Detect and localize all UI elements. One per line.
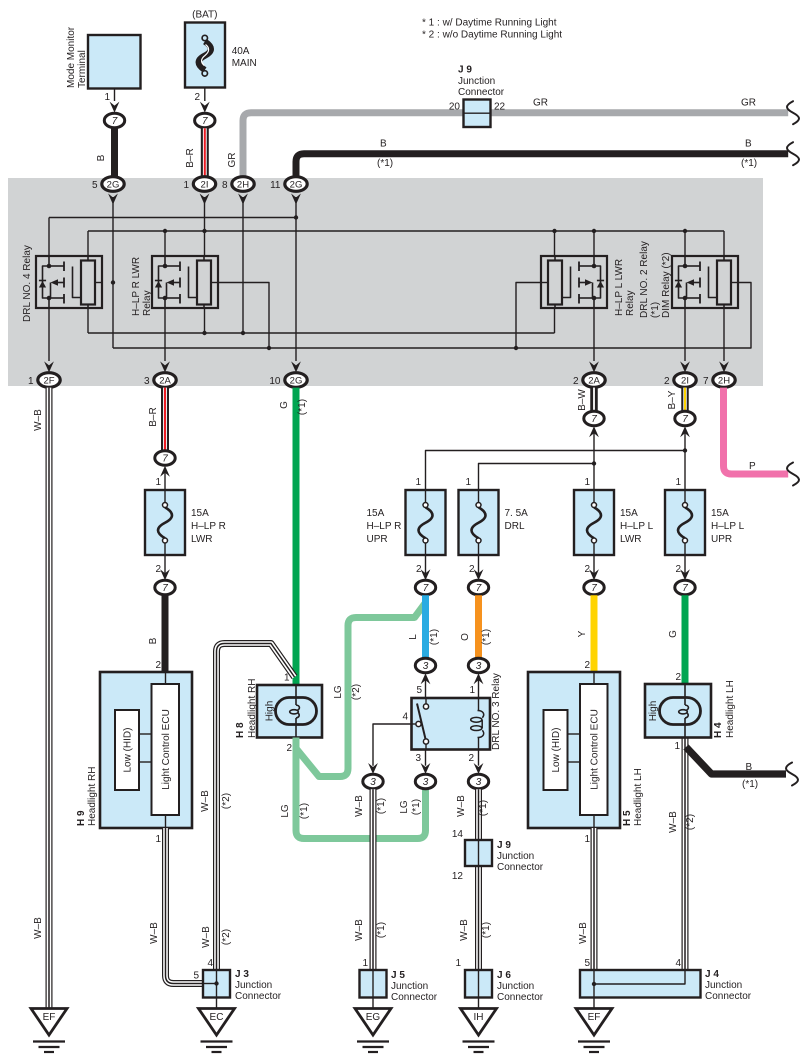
pin 2 of 40A MAIN <box>194 88 204 103</box>
svg-text:2: 2 <box>194 92 200 103</box>
svg-text:G: G <box>279 401 290 409</box>
connector oval 7 (40A MAIN) <box>195 113 215 127</box>
svg-text:5: 5 <box>584 958 590 969</box>
connector oval 3 (pin 4 wire) <box>363 774 383 788</box>
pin 1 labels fuses 1-2 <box>415 477 471 488</box>
svg-text:4: 4 <box>675 958 681 969</box>
wire W-B (*2) from H8 pin1 to J3 pin4 <box>200 644 295 971</box>
legend note *1 *2 <box>422 18 562 41</box>
svg-text:Headlight RH: Headlight RH <box>87 767 98 826</box>
svg-text:4: 4 <box>402 712 408 723</box>
svg-text:7: 7 <box>423 583 429 594</box>
svg-text:B–W: B–W <box>577 389 588 411</box>
break symbol P wire <box>787 461 801 487</box>
wire net L3 (y=333) contact bus <box>88 308 555 333</box>
pin 2 and connector 7 below fuse at x=425.5 <box>415 555 435 595</box>
svg-text:B: B <box>746 762 753 773</box>
svg-text:EC: EC <box>210 1012 224 1023</box>
coil inside DRL NO.3 relay <box>471 698 484 750</box>
svg-text:1: 1 <box>584 477 590 488</box>
pin 2 and connector 7 below fuse at x=685 <box>675 555 695 595</box>
svg-text:W–B: W–B <box>354 919 365 941</box>
wire B-R from 2A to connector 7 <box>148 388 165 451</box>
svg-text:H–LP L: H–LP L <box>711 521 745 532</box>
junction dots on net L3 <box>202 331 245 335</box>
break symbol GR wire <box>787 100 801 126</box>
svg-text:IH: IH <box>474 1012 484 1023</box>
svg-text:10: 10 <box>269 376 281 387</box>
svg-text:Connector: Connector <box>458 87 505 98</box>
svg-text:H–LP R LWR: H–LP R LWR <box>131 257 142 316</box>
svg-text:(*1): (*1) <box>741 158 757 169</box>
wire relay4 contact to 2H <box>723 308 725 361</box>
wire B-Y from 2I to connector 7 <box>667 388 685 411</box>
connector oval 7 (B-Y) <box>675 411 695 425</box>
svg-text:2: 2 <box>286 743 292 754</box>
svg-text:DIM Relay (*2): DIM Relay (*2) <box>661 252 672 318</box>
svg-text:P: P <box>749 461 756 472</box>
svg-text:15A: 15A <box>620 508 638 519</box>
svg-text:1: 1 <box>104 92 110 103</box>
component Mode Monitor Terminal box <box>88 35 141 89</box>
break symbol B wire <box>787 141 801 167</box>
wire Y yellow <box>577 595 594 672</box>
wire arrow up into oval 3 (L) <box>416 673 430 698</box>
svg-text:12: 12 <box>452 871 464 882</box>
svg-text:Junction: Junction <box>705 980 742 991</box>
svg-text:Junction: Junction <box>497 851 534 862</box>
junction dots on net L2 <box>163 229 687 233</box>
wire W-B from H9 pin1 to J3 pin5 <box>149 828 204 984</box>
svg-text:High: High <box>648 701 659 722</box>
svg-text:Connector: Connector <box>497 992 544 1003</box>
svg-text:1: 1 <box>155 834 161 845</box>
ground IH <box>461 1009 497 1053</box>
pin 1 of H5 <box>584 834 590 845</box>
svg-text:H–LP R: H–LP R <box>367 521 402 532</box>
wire B-W from 2A to connector 7 <box>577 388 594 411</box>
gray relay block background <box>8 178 763 386</box>
wire W-B from 2F to ground EF <box>33 388 49 1009</box>
svg-text:B: B <box>745 139 752 150</box>
svg-text:J 5: J 5 <box>391 970 405 981</box>
svg-text:Connector: Connector <box>235 991 282 1002</box>
svg-text:1: 1 <box>284 673 290 684</box>
wire W-B from H5 pin1 to J4 pin5 <box>578 828 594 970</box>
svg-text:B: B <box>380 139 387 150</box>
svg-text:G: G <box>668 630 679 638</box>
pin 2 of DRL NO.3 relay <box>468 750 478 766</box>
svg-text:(*1): (*1) <box>742 779 758 790</box>
svg-text:2: 2 <box>468 753 474 764</box>
connector oval 3 (pin 3 wire) <box>415 774 435 788</box>
fuse 15A H-LP L UPR <box>665 490 745 555</box>
pin 2 and connector 7 below fuse at x=478.5 <box>468 555 488 595</box>
svg-text:(*1): (*1) <box>297 399 308 415</box>
svg-text:1: 1 <box>28 376 34 387</box>
svg-text:14: 14 <box>452 829 464 840</box>
wire from 2I down to relay2 contact <box>204 197 206 256</box>
wire arrow into oval 3 (pin4) <box>368 763 378 774</box>
svg-text:(*1): (*1) <box>411 799 422 815</box>
svg-text:1: 1 <box>674 741 680 752</box>
svg-text:Light Control ECU: Light Control ECU <box>590 709 601 790</box>
wire net L2 (y=231) relay tops <box>88 231 724 256</box>
svg-text:J 3: J 3 <box>235 969 249 980</box>
connector oval 3 (pin 2 wire) <box>468 774 488 788</box>
svg-text:5: 5 <box>92 180 98 191</box>
svg-text:W–B: W–B <box>459 919 470 941</box>
svg-text:(*1): (*1) <box>299 803 310 819</box>
svg-text:UPR: UPR <box>711 534 732 545</box>
svg-text:2G: 2G <box>290 180 303 191</box>
svg-text:22: 22 <box>494 102 506 113</box>
svg-text:J 6: J 6 <box>497 970 511 981</box>
svg-text:15A: 15A <box>711 508 729 519</box>
svg-text:(*1): (*1) <box>481 629 492 645</box>
connector 5 2G (top boundary) <box>92 177 124 205</box>
fusible link 40A MAIN box <box>185 23 225 88</box>
wire arrow up into connector 7 <box>160 466 170 477</box>
switch inside DRL NO.3 relay <box>412 698 429 750</box>
svg-text:1: 1 <box>675 477 681 488</box>
wire bus2 (y=463.5) <box>479 464 595 491</box>
junction dot relay1 stub/2G-5 <box>111 280 115 284</box>
wire stub relay3 left to net L4 <box>516 283 541 349</box>
ECU H9 Headlight RH <box>76 672 192 828</box>
wire O (*1) orange <box>460 595 492 658</box>
wire B (*1) from 2G-11 to right edge <box>296 139 790 178</box>
label (BAT) <box>192 10 217 21</box>
svg-text:5: 5 <box>416 685 422 696</box>
wire J5 to ground EG <box>372 998 374 1009</box>
junction connector J4 (pins 5/4) <box>580 969 752 1002</box>
svg-text:7: 7 <box>202 116 208 127</box>
wire B-R from 40A MAIN to 2I <box>185 128 205 177</box>
svg-text:Connector: Connector <box>497 862 544 873</box>
svg-text:1: 1 <box>455 958 461 969</box>
svg-text:LWR: LWR <box>620 534 641 545</box>
svg-text:2G: 2G <box>290 376 303 387</box>
svg-text:7: 7 <box>162 583 168 594</box>
svg-text:Low (HID): Low (HID) <box>551 727 562 772</box>
svg-text:2: 2 <box>675 564 681 575</box>
svg-text:LG: LG <box>280 804 291 818</box>
ECU H5 Headlight LH <box>528 672 644 828</box>
svg-text:W–B: W–B <box>33 917 44 939</box>
svg-text:7: 7 <box>112 116 118 127</box>
connector oval 7 (B wire) <box>155 580 175 594</box>
svg-text:4: 4 <box>207 958 213 969</box>
wire from 2G-5 down to net L4 <box>112 197 114 348</box>
svg-text:Headlight RH: Headlight RH <box>247 679 258 738</box>
connector oval 7 (Mode Monitor) <box>104 113 124 127</box>
svg-text:DRL: DRL <box>505 521 525 532</box>
svg-text:(*1): (*1) <box>429 629 440 645</box>
svg-text:2A: 2A <box>588 376 600 387</box>
pin 2 of fuse H-LP R LWR <box>155 555 165 576</box>
svg-text:L: L <box>408 634 419 640</box>
svg-text:Junction: Junction <box>458 76 495 87</box>
svg-text:(*1): (*1) <box>478 800 489 816</box>
svg-text:Connector: Connector <box>705 991 752 1002</box>
wire arrow into connector 7 (40A MAIN) <box>200 102 210 113</box>
wire net L1 (y=217.5) battery feed <box>49 218 296 257</box>
svg-text:B–R: B–R <box>185 148 196 167</box>
junction dots on net L4 <box>267 346 518 350</box>
svg-text:8: 8 <box>222 180 228 191</box>
svg-text:LG: LG <box>399 800 410 814</box>
connector 2 2I (bottom boundary) <box>664 361 696 387</box>
svg-text:DRL NO. 2 Relay: DRL NO. 2 Relay <box>639 241 650 318</box>
component Mode Monitor Terminal label <box>66 26 88 88</box>
wire LG (*2) from L wire to H8 pin2 <box>297 602 427 777</box>
svg-text:Junction: Junction <box>235 980 272 991</box>
connector oval 3 (O wire) <box>468 658 488 672</box>
wire from 2G-11 down to 2G-10 <box>295 197 297 361</box>
svg-text:7: 7 <box>703 376 709 387</box>
svg-text:GR: GR <box>227 153 238 168</box>
svg-text:B–R: B–R <box>148 407 159 426</box>
wire J3 to ground EC <box>216 998 218 1009</box>
svg-text:7: 7 <box>682 414 688 425</box>
wire P from 2H to right edge <box>724 388 791 474</box>
wire arrow up into oval 3 (O) <box>469 673 483 698</box>
wire W-B (*1) from oval3 pin4 to J5 <box>354 789 387 970</box>
svg-text:Low (HID): Low (HID) <box>123 727 134 772</box>
bulb H4 Headlight LH <box>645 680 736 752</box>
relay H-LP L LWR Relay <box>541 256 636 316</box>
wire relay3 transistor to 2A <box>593 308 595 361</box>
wire J4 to ground EF <box>593 998 595 1009</box>
svg-text:H 4: H 4 <box>713 722 724 738</box>
svg-text:1: 1 <box>469 685 475 696</box>
wire relay1 transistor to 2F <box>48 308 50 361</box>
svg-text:3: 3 <box>370 777 376 788</box>
svg-text:UPR: UPR <box>367 534 388 545</box>
svg-text:Junction: Junction <box>497 981 534 992</box>
svg-text:7: 7 <box>162 454 168 465</box>
svg-text:2: 2 <box>584 660 590 671</box>
pin 4 of DRL NO.3 relay <box>373 712 412 766</box>
svg-text:(*2): (*2) <box>221 929 232 945</box>
wire stub relay2 right to net L4 <box>218 283 269 349</box>
pin 1 of H9 <box>155 834 161 845</box>
junction connector J5 (pin 1) <box>360 958 438 1003</box>
ground EF (right) <box>576 1009 612 1053</box>
svg-text:W–B: W–B <box>456 795 467 817</box>
junction dot bus1/fuse4 <box>683 448 687 452</box>
svg-text:* 2 : w/o Daytime Running Ligh: * 2 : w/o Daytime Running Light <box>422 30 562 41</box>
relay DRL NO. 2 Relay / DIM Relay <box>639 241 738 318</box>
svg-text:W–B: W–B <box>200 790 211 812</box>
svg-text:DRL NO. 4 Relay: DRL NO. 4 Relay <box>22 245 33 322</box>
relay DRL NO. 3 Relay box <box>412 673 503 750</box>
wire arrow up into connector 7 (B-W) <box>589 426 599 437</box>
svg-text:11: 11 <box>270 180 281 191</box>
wire L (*1) blue <box>408 595 440 658</box>
svg-text:Terminal: Terminal <box>77 50 88 88</box>
fuse 15A H-LP L LWR <box>574 490 654 555</box>
svg-text:2: 2 <box>469 564 475 575</box>
pin 1 of fuse H-LP L UPR (wire down) <box>675 430 685 490</box>
svg-text:1: 1 <box>362 958 368 969</box>
svg-text:3: 3 <box>423 661 429 672</box>
svg-text:5: 5 <box>193 971 199 982</box>
svg-text:GR: GR <box>533 98 548 109</box>
svg-text:H–LP L: H–LP L <box>620 521 654 532</box>
svg-text:2: 2 <box>573 376 579 387</box>
svg-text:2I: 2I <box>681 376 689 387</box>
svg-text:3: 3 <box>144 376 150 387</box>
svg-text:2H: 2H <box>718 376 730 387</box>
svg-text:W–B: W–B <box>201 926 212 948</box>
wire from 2H down to net L3 <box>242 197 244 333</box>
svg-text:Junction: Junction <box>391 981 428 992</box>
svg-text:2: 2 <box>416 564 422 575</box>
svg-text:J 9: J 9 <box>497 840 511 851</box>
junction connector J9 (middle, pins 14/12) <box>452 829 544 882</box>
svg-text:Headlight LH: Headlight LH <box>725 680 736 738</box>
svg-text:2H: 2H <box>237 180 249 191</box>
svg-text:LG: LG <box>333 685 344 699</box>
wire arrow down into connector 7 <box>160 569 170 580</box>
connector 1 2I (top boundary) <box>183 177 215 205</box>
fuse 7.5A DRL <box>459 490 529 555</box>
svg-text:O: O <box>460 633 471 641</box>
svg-text:2: 2 <box>664 376 670 387</box>
svg-text:3: 3 <box>476 777 482 788</box>
connector 2 2A (bottom boundary) <box>573 361 605 387</box>
svg-text:7: 7 <box>591 414 597 425</box>
svg-text:2: 2 <box>584 564 590 575</box>
svg-text:J 9: J 9 <box>458 65 472 76</box>
svg-text:15A: 15A <box>191 508 209 519</box>
svg-text:H–LP L LWR: H–LP L LWR <box>614 259 625 316</box>
junction dot bus2/fuse3 <box>592 461 596 465</box>
svg-text:7: 7 <box>682 583 688 594</box>
svg-text:(*1): (*1) <box>376 798 387 814</box>
svg-text:15A: 15A <box>367 508 385 519</box>
pin 2 and connector 7 below fuse at x=594 <box>584 555 604 595</box>
junction connector J3 (pins 5/4) <box>193 958 281 1002</box>
svg-text:Light Control ECU: Light Control ECU <box>161 709 172 790</box>
bulb H8 Headlight RH <box>235 673 322 755</box>
wire B from Mode Monitor to 2G <box>96 128 115 177</box>
svg-text:1: 1 <box>465 477 471 488</box>
svg-text:Connector: Connector <box>391 992 438 1003</box>
svg-text:W–B: W–B <box>149 922 160 944</box>
svg-text:1: 1 <box>155 477 161 488</box>
svg-text:Headlight LH: Headlight LH <box>633 768 644 826</box>
svg-text:High: High <box>265 701 276 722</box>
svg-text:(*1): (*1) <box>481 922 492 938</box>
svg-text:GR: GR <box>741 98 756 109</box>
svg-text:DRL NO. 3 Relay: DRL NO. 3 Relay <box>491 673 502 750</box>
connector 10 2G (bottom boundary) <box>269 361 307 387</box>
svg-text:7. 5A: 7. 5A <box>505 508 529 519</box>
pin 3 of DRL NO.3 relay <box>415 750 425 766</box>
svg-text:Relay: Relay <box>625 290 636 316</box>
svg-text:MAIN: MAIN <box>232 58 257 69</box>
junction connector J6 (pin 1) <box>455 958 543 1003</box>
pin 1 of Mode Monitor Terminal <box>104 89 114 103</box>
connector 11 2G (top boundary) <box>270 177 307 205</box>
label 40A MAIN <box>232 46 257 69</box>
wire arrow up into connector 7 (B-Y) <box>680 426 690 437</box>
svg-text:H 5: H 5 <box>622 810 633 826</box>
ground EC <box>199 1009 235 1053</box>
junction dot L1/2G-11 <box>294 215 298 219</box>
relay H-LP R LWR Relay <box>131 256 218 316</box>
svg-text:J 4: J 4 <box>705 969 719 980</box>
svg-text:W–B: W–B <box>33 409 44 431</box>
connector 7 2H (bottom boundary) <box>703 361 735 387</box>
svg-text:(*1): (*1) <box>377 158 393 169</box>
svg-text:H–LP R: H–LP R <box>191 521 226 532</box>
svg-text:LWR: LWR <box>191 534 212 545</box>
wire arrow into oval 3 (pin3) <box>421 763 431 774</box>
wire W-B (*2) from H4 pin1 to J4 pin4 <box>668 738 696 971</box>
connector oval 7 (B-W) <box>584 411 604 425</box>
svg-text:Relay: Relay <box>142 290 153 316</box>
svg-text:(*1): (*1) <box>650 302 661 318</box>
svg-text:7: 7 <box>591 583 597 594</box>
svg-text:20: 20 <box>449 102 461 113</box>
wire bus1 (y=450.5) <box>426 451 686 491</box>
svg-text:2: 2 <box>675 672 681 683</box>
svg-text:1: 1 <box>415 477 421 488</box>
connector 1 2F (bottom boundary) <box>28 361 60 387</box>
wire arrow into oval 3 (pin2) <box>474 763 484 774</box>
svg-text:2F: 2F <box>43 376 54 387</box>
wire G green to H4 <box>668 595 685 684</box>
svg-text:2I: 2I <box>201 180 209 191</box>
svg-text:2: 2 <box>155 660 161 671</box>
svg-text:B: B <box>148 637 159 644</box>
svg-text:3: 3 <box>476 661 482 672</box>
svg-text:2G: 2G <box>107 180 120 191</box>
svg-text:B–Y: B–Y <box>667 390 678 409</box>
wire arrow into connector 7 (Mode Monitor) <box>110 102 120 113</box>
wire W-B (*1) from oval3 pin2 through J9 to J6 <box>456 789 492 970</box>
svg-text:(*2): (*2) <box>685 814 696 830</box>
connector 8 2H (top boundary) <box>222 177 254 205</box>
pin 1 of fuse H-LP L LWR (wire down) <box>584 430 594 490</box>
svg-text:(*2): (*2) <box>221 793 232 809</box>
svg-text:3: 3 <box>415 753 421 764</box>
wire B from fuse to H9 <box>148 595 165 672</box>
svg-text:W–B: W–B <box>354 795 365 817</box>
svg-text:40A: 40A <box>232 46 250 57</box>
svg-text:* 1 : w/ Daytime Running Light: * 1 : w/ Daytime Running Light <box>422 18 557 29</box>
svg-text:Mode Monitor: Mode Monitor <box>66 26 77 88</box>
break symbol B (*1) wire <box>786 761 800 787</box>
svg-text:EG: EG <box>366 1012 381 1023</box>
wire Y into H5 (already drawn) pin2 context <box>0 0 1 1</box>
fuse 15A H-LP R UPR <box>367 490 446 555</box>
svg-text:7: 7 <box>476 583 482 594</box>
svg-text:W–B: W–B <box>578 922 589 944</box>
connector oval 7 (B-R) <box>155 451 175 465</box>
svg-text:H 9: H 9 <box>76 810 87 826</box>
wire J6 to ground IH <box>478 998 480 1009</box>
svg-text:B: B <box>96 154 107 161</box>
svg-text:EF: EF <box>43 1012 56 1023</box>
ground EF (left) <box>31 1009 67 1053</box>
relay DRL NO. 4 Relay <box>22 245 102 322</box>
svg-text:1: 1 <box>584 834 590 845</box>
